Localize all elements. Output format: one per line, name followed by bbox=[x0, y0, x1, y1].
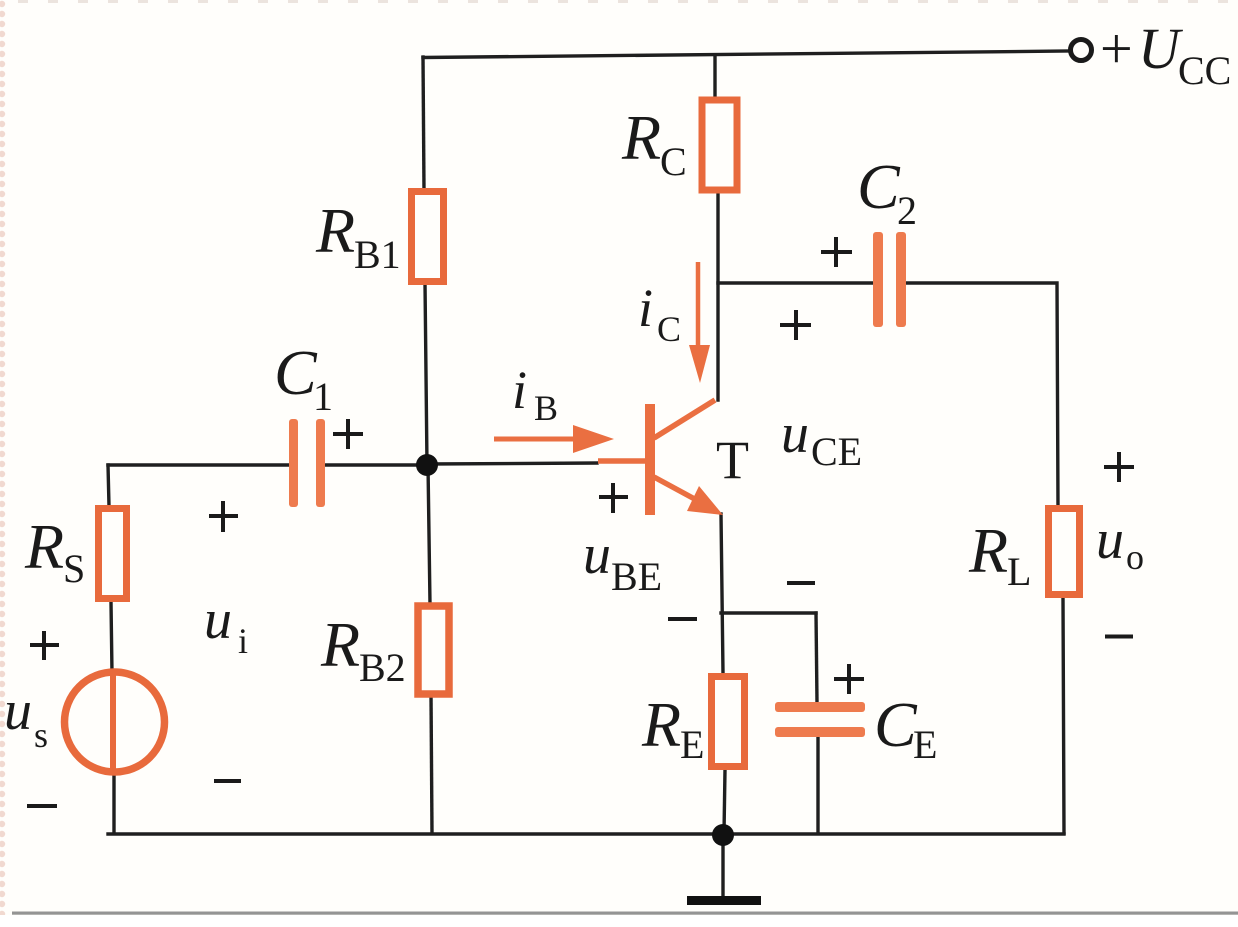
wire RC bottom / collector bbox=[716, 193, 719, 400]
resistor RE bbox=[712, 677, 745, 767]
svg-text:B1: B1 bbox=[354, 232, 401, 277]
plus sign uBE bbox=[599, 495, 628, 499]
svg-text:R: R bbox=[315, 195, 355, 266]
svg-text:R: R bbox=[320, 609, 360, 680]
wire RC top bbox=[713, 55, 716, 99]
ground bbox=[687, 896, 761, 905]
plus sign C1 bbox=[333, 432, 363, 436]
wire RS to source bbox=[111, 602, 112, 673]
svg-text:B2: B2 bbox=[359, 645, 406, 690]
svg-text:2: 2 bbox=[897, 188, 917, 233]
resistor RL bbox=[1049, 509, 1080, 595]
plus sign uCE bbox=[780, 323, 811, 327]
resistor RS bbox=[99, 509, 127, 599]
svg-text:u: u bbox=[1096, 509, 1124, 571]
svg-text:L: L bbox=[1007, 549, 1031, 594]
wire node B to RB2 bbox=[428, 465, 430, 604]
wire left top bbox=[108, 465, 109, 506]
wire CE top bbox=[816, 613, 817, 702]
svg-text:C: C bbox=[660, 139, 687, 184]
current arrow iC bbox=[696, 262, 701, 350]
minus sign uBE bbox=[668, 617, 697, 621]
svg-text:u: u bbox=[204, 589, 232, 651]
node E junction dot bbox=[712, 824, 734, 846]
wire RL bottom bbox=[1063, 598, 1064, 833]
plus sign C2 bbox=[821, 250, 852, 254]
svg-text:C: C bbox=[874, 689, 918, 760]
wire node B to base bbox=[427, 463, 597, 464]
node B junction dot bbox=[416, 454, 438, 476]
capacitor C2 plates bbox=[873, 232, 906, 327]
svg-text:S: S bbox=[63, 546, 85, 591]
svg-text:i: i bbox=[512, 360, 527, 420]
svg-text:B: B bbox=[534, 388, 558, 428]
wire RB1 top bbox=[423, 57, 424, 190]
transistor T emitter lead bbox=[654, 477, 702, 503]
svg-text:R: R bbox=[621, 102, 661, 173]
svg-text:R: R bbox=[24, 511, 64, 582]
svg-text:BE: BE bbox=[611, 554, 662, 599]
svg-text:+: + bbox=[1100, 16, 1133, 81]
terminal +UCC circle bbox=[1071, 40, 1092, 61]
svg-text:T: T bbox=[716, 430, 749, 490]
svg-text:u: u bbox=[4, 680, 32, 742]
resistor RC bbox=[702, 100, 737, 190]
capacitor C1 plates bbox=[289, 419, 325, 507]
svg-text:CC: CC bbox=[1178, 48, 1231, 93]
wire source bottom bbox=[112, 772, 115, 833]
wire collector to C2 bbox=[718, 281, 872, 284]
wire bottom rail bbox=[108, 832, 1064, 835]
minus sign uCE bbox=[787, 581, 815, 585]
svg-text:R: R bbox=[641, 689, 681, 760]
wire RE bottom bbox=[724, 770, 725, 833]
transistor T base bar bbox=[645, 404, 655, 515]
svg-text:u: u bbox=[781, 403, 809, 465]
minus sign uo bbox=[1105, 635, 1133, 639]
wire emitter down bbox=[721, 514, 723, 673]
minus sign us bbox=[27, 804, 57, 808]
resistor RB2 bbox=[418, 606, 449, 694]
wire source rail to C1 bbox=[108, 463, 289, 466]
svg-text:C: C bbox=[857, 151, 901, 222]
svg-text:CE: CE bbox=[811, 429, 862, 474]
transistor T emitter arrowhead bbox=[687, 486, 723, 515]
svg-text:u: u bbox=[583, 524, 611, 586]
svg-text:o: o bbox=[1126, 537, 1144, 577]
plus sign uo bbox=[1104, 465, 1134, 469]
wire C1 to node B bbox=[325, 463, 427, 466]
wire RB2 bottom bbox=[431, 694, 432, 833]
transistor T base lead bbox=[598, 458, 645, 464]
svg-text:R: R bbox=[968, 515, 1008, 586]
source us diameter line bbox=[110, 674, 116, 770]
svg-text:C: C bbox=[657, 309, 681, 349]
source us circle bbox=[65, 672, 165, 772]
wire C2 to RL corner bbox=[906, 283, 1058, 506]
svg-text:1: 1 bbox=[313, 374, 333, 419]
svg-text:i: i bbox=[638, 278, 653, 338]
svg-text:E: E bbox=[680, 722, 704, 767]
wire ground stub bbox=[721, 834, 724, 897]
wire top rail bbox=[423, 51, 1070, 58]
wire RB1 bottom to node B bbox=[425, 283, 427, 465]
wire CE bottom bbox=[816, 737, 819, 833]
plus sign CE bbox=[834, 677, 864, 681]
svg-text:s: s bbox=[34, 715, 48, 755]
transistor T collector lead bbox=[654, 400, 715, 438]
svg-text:i: i bbox=[238, 621, 248, 661]
minus sign ui bbox=[214, 779, 241, 783]
current arrow iB bbox=[494, 437, 577, 442]
svg-text:C: C bbox=[274, 337, 318, 408]
plus sign ui bbox=[209, 514, 238, 518]
capacitor CE plates bbox=[775, 702, 865, 737]
svg-text:E: E bbox=[913, 722, 937, 767]
plus sign us bbox=[30, 643, 59, 647]
resistor RB1 bbox=[412, 192, 444, 282]
wire emitter branch to CE bbox=[721, 611, 816, 614]
